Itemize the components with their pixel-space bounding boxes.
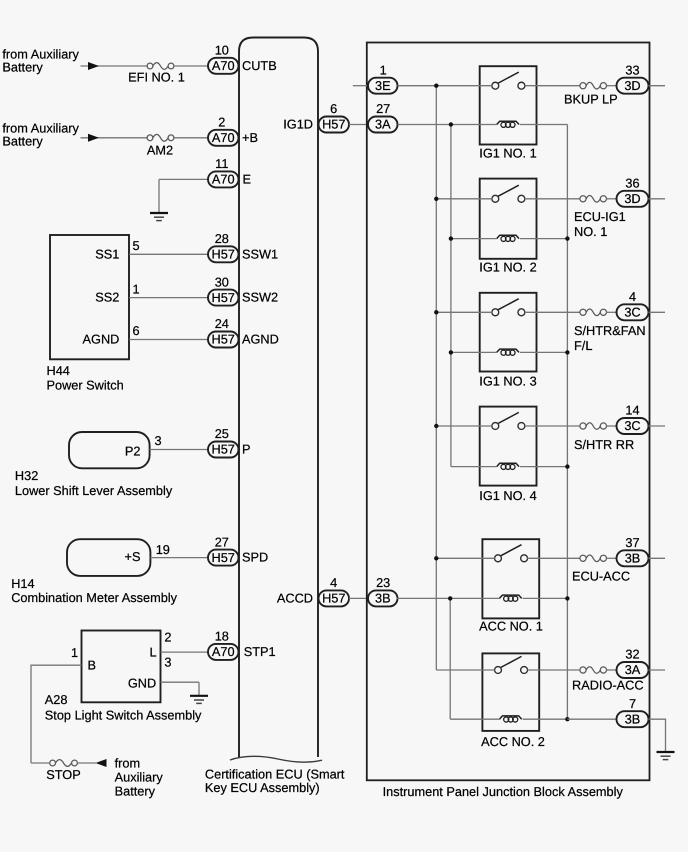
- connector 3A pin 32: [617, 662, 649, 678]
- wire +S to H57 pin27: [150, 557, 208, 559]
- ground (pin E): [150, 179, 168, 220]
- svg-text:L: L: [150, 644, 157, 659]
- svg-text:Battery: Battery: [2, 134, 43, 149]
- relay ACC NO. 1 switch: [495, 545, 528, 562]
- wire coil right IG1 NO. 1: [520, 124, 568, 126]
- svg-text:1: 1: [133, 281, 140, 296]
- wire ground to A70 pin11: [159, 178, 208, 180]
- svg-text:H57: H57: [212, 247, 235, 262]
- relay IG1 NO. 3 box: [480, 293, 537, 372]
- junction dot: [449, 122, 453, 126]
- wire fuse to oval: [607, 85, 617, 87]
- wire coil left ACC NO. 2: [450, 718, 499, 720]
- wire coil left IG1 NO. 4: [451, 466, 497, 468]
- relay IG1 NO. 2 switch: [492, 185, 525, 202]
- connector 3C pin 14: [617, 418, 649, 434]
- svg-text:A28: A28: [45, 692, 68, 707]
- svg-text:4: 4: [330, 575, 337, 590]
- fuse EFI NO. 1: [147, 63, 174, 70]
- svg-text:BKUP LP: BKUP LP: [564, 91, 618, 106]
- connector 3D pin 36: [617, 191, 649, 207]
- wire fuse to A70 pin10: [174, 65, 208, 67]
- fuse ECU-ACC: [580, 555, 607, 562]
- svg-text:24: 24: [215, 316, 229, 331]
- wire fuse to oval: [607, 425, 617, 427]
- wire 3B pin7 to ground: [649, 719, 666, 751]
- wire switch input ACC NO. 2: [436, 669, 494, 671]
- connector H57 pin 28: [208, 246, 239, 262]
- node from Auxiliary Battery (second): [2, 121, 79, 149]
- svg-text:H57: H57: [212, 332, 235, 347]
- svg-text:IG1 NO. 2: IG1 NO. 2: [479, 259, 536, 274]
- wire out of block: [649, 669, 666, 671]
- svg-text:23: 23: [376, 575, 390, 590]
- relay ACC NO. 2 switch: [495, 656, 528, 673]
- fuse BKUP LP: [580, 82, 607, 89]
- svg-text:H57: H57: [212, 550, 235, 565]
- wire switch input IG1 NO. 2: [436, 198, 492, 200]
- relay ACC NO. 2 box: [482, 653, 539, 731]
- svg-text:1: 1: [380, 62, 387, 77]
- svg-text:SSW2: SSW2: [242, 290, 278, 305]
- svg-text:3E: 3E: [375, 78, 391, 93]
- svg-text:IG1D: IG1D: [283, 117, 313, 132]
- relay ACC NO. 2 coil: [499, 716, 521, 722]
- svg-text:P: P: [242, 442, 251, 457]
- node from Auxiliary Battery (bottom): [115, 755, 164, 798]
- svg-text:2: 2: [164, 630, 171, 645]
- svg-text:from: from: [115, 755, 141, 770]
- svg-text:S/HTR RR: S/HTR RR: [574, 437, 634, 452]
- wire out of block: [649, 198, 666, 200]
- wire coil right ACC NO. 2: [523, 718, 568, 720]
- connector 3B pin 23: [368, 590, 398, 606]
- svg-text:A70: A70: [212, 130, 235, 145]
- svg-text:27: 27: [376, 101, 390, 116]
- relay IG1 NO. 4 box: [480, 407, 537, 486]
- wire switch output IG1 NO. 1: [525, 85, 580, 87]
- connector H57 pin 24: [208, 332, 239, 348]
- connector 3B pin 7: [617, 711, 649, 727]
- svg-text:4: 4: [629, 289, 636, 304]
- wire fuse to A70 pin2: [174, 137, 208, 139]
- svg-text:Stop Light Switch Assembly: Stop Light Switch Assembly: [45, 707, 202, 722]
- wire switch output ACC NO. 2: [527, 669, 580, 671]
- fuse S/HTR&FAN: [580, 309, 607, 316]
- connector H57 pin 27: [208, 550, 239, 566]
- wire coil left IG1 NO. 2: [451, 238, 497, 240]
- svg-text:A70: A70: [212, 172, 235, 187]
- svg-text:3B: 3B: [625, 551, 641, 566]
- wire out of block: [649, 85, 666, 87]
- svg-text:1: 1: [71, 645, 78, 660]
- node from Auxiliary Battery (top): [2, 47, 79, 75]
- wire L to A70 pin18: [161, 651, 209, 653]
- connector 3C pin 4: [617, 304, 649, 320]
- connector 3D pin 33: [617, 78, 649, 94]
- wire out of block: [649, 311, 666, 313]
- svg-text:25: 25: [215, 426, 229, 441]
- svg-text:3A: 3A: [625, 662, 641, 677]
- svg-text:SPD: SPD: [242, 550, 268, 565]
- svg-text:H44: H44: [47, 363, 70, 378]
- svg-text:3C: 3C: [624, 418, 640, 433]
- junction dot: [434, 556, 438, 560]
- svg-text:32: 32: [625, 647, 639, 662]
- junction dot: [434, 84, 438, 88]
- wire coil return to 3B pin7: [567, 718, 616, 720]
- wire stub into 3E: [353, 85, 368, 87]
- component H44 Power Switch box: [50, 235, 129, 359]
- svg-text:10: 10: [215, 43, 229, 58]
- wire switch input IG1 NO. 4: [436, 425, 492, 427]
- relay ACC NO. 1 coil: [499, 595, 521, 601]
- svg-text:RADIO-ACC: RADIO-ACC: [572, 678, 644, 693]
- svg-text:E: E: [243, 171, 252, 186]
- svg-text:Battery: Battery: [2, 60, 43, 75]
- svg-text:H57: H57: [212, 290, 235, 305]
- junction dot: [565, 236, 569, 240]
- wire coil right IG1 NO. 2: [520, 238, 568, 240]
- junction dot: [434, 424, 438, 428]
- svg-text:Instrument Panel Junction Bloc: Instrument Panel Junction Block Assembly: [383, 784, 624, 799]
- wire battery to fuse EFI: [81, 65, 148, 67]
- svg-text:SS2: SS2: [95, 290, 119, 305]
- wire GND to ground: [161, 681, 200, 683]
- svg-text:NO. 1: NO. 1: [574, 224, 607, 239]
- wire B to STOP fuse: [31, 665, 82, 763]
- connector A70 pin 18: [208, 644, 239, 660]
- wire H57-6 to 3A: [349, 124, 368, 126]
- svg-text:AM2: AM2: [147, 143, 173, 158]
- junction dot: [449, 350, 453, 354]
- svg-text:H57: H57: [322, 591, 345, 606]
- svg-text:3: 3: [164, 655, 171, 670]
- svg-text:36: 36: [625, 176, 639, 191]
- svg-text:H32: H32: [15, 468, 38, 483]
- connector A70 pin 10: [208, 58, 239, 74]
- svg-text:18: 18: [215, 629, 229, 644]
- svg-text:S/HTR&FAN: S/HTR&FAN: [574, 323, 646, 338]
- svg-text:5: 5: [133, 238, 140, 253]
- wire fuse to oval: [607, 557, 617, 559]
- svg-text:3A: 3A: [375, 117, 391, 132]
- label Certification ECU: [205, 766, 345, 794]
- junction dot: [448, 596, 452, 600]
- wire switch bus: [435, 86, 437, 670]
- svg-text:GND: GND: [128, 676, 156, 691]
- svg-text:F/L: F/L: [574, 338, 592, 353]
- wire P2 to H57 pin25: [150, 449, 208, 451]
- wire out of block: [649, 425, 666, 427]
- wire fuse to oval: [607, 669, 617, 671]
- svg-text:2: 2: [218, 115, 225, 130]
- connector H57 pin 6: [319, 117, 350, 133]
- svg-text:6: 6: [330, 101, 337, 116]
- svg-text:33: 33: [625, 62, 639, 77]
- wire switch output IG1 NO. 3: [525, 311, 580, 313]
- svg-text:ACC NO. 1: ACC NO. 1: [479, 618, 543, 633]
- label S/HTR&FAN: [574, 323, 646, 353]
- svg-text:+B: +B: [242, 130, 258, 145]
- svg-text:30: 30: [215, 274, 229, 289]
- op ECU Certification ECU outline: [239, 38, 318, 758]
- component A28 Stop Light Switch Assembly box: [82, 631, 161, 703]
- svg-text:3B: 3B: [375, 591, 391, 606]
- svg-text:H57: H57: [322, 117, 345, 132]
- relay IG1 NO. 2 box: [480, 179, 537, 259]
- fuse ECU-IG1: [580, 196, 607, 203]
- wire switch output IG1 NO. 4: [525, 425, 580, 427]
- svg-text:SS1: SS1: [95, 246, 119, 261]
- svg-text:SSW1: SSW1: [242, 246, 278, 261]
- svg-text:A70: A70: [212, 58, 235, 73]
- junction dot: [565, 596, 569, 600]
- wire SS2 to H57 pin30: [129, 297, 208, 299]
- wire battery to fuse AM2: [81, 137, 148, 139]
- svg-text:STOP: STOP: [46, 767, 80, 782]
- arrow feed +B: [88, 134, 99, 142]
- wire switch output IG1 NO. 2: [525, 198, 580, 200]
- svg-text:ECU-ACC: ECU-ACC: [572, 569, 630, 584]
- fuse STOP: [50, 760, 78, 767]
- svg-text:CUTB: CUTB: [242, 58, 277, 73]
- arrow feed STOP: [96, 759, 107, 767]
- svg-text:STP1: STP1: [244, 644, 276, 659]
- wire coil left ACC NO. 1: [396, 597, 499, 599]
- svg-text:IG1 NO. 4: IG1 NO. 4: [479, 488, 536, 503]
- junction dot: [565, 464, 569, 468]
- svg-text:Battery: Battery: [115, 783, 156, 798]
- junction dot: [449, 236, 453, 240]
- fuse AM2: [147, 134, 174, 141]
- relay IG1 NO. 2 coil: [497, 235, 519, 241]
- svg-text:H57: H57: [212, 442, 235, 457]
- svg-text:B: B: [88, 657, 97, 672]
- svg-text:ECU-IG1: ECU-IG1: [574, 209, 626, 224]
- connector H57 pin 30: [208, 290, 239, 306]
- connector 3A pin 27: [368, 117, 398, 133]
- wire to fuse STOP: [31, 762, 49, 764]
- relay IG1 NO. 4 coil: [497, 463, 519, 469]
- svg-text:Lower Shift Lever Assembly: Lower Shift Lever Assembly: [15, 483, 173, 498]
- connector A70 pin 11: [208, 171, 239, 187]
- wire ECU wavy bottom: [230, 756, 322, 762]
- connector 3E pin 1: [368, 78, 398, 94]
- svg-text:6: 6: [133, 323, 140, 338]
- arrow feed CUTB: [88, 62, 99, 70]
- svg-text:P2: P2: [125, 443, 141, 458]
- connector A70 pin 2: [208, 130, 239, 146]
- svg-text:ACC NO. 2: ACC NO. 2: [481, 734, 545, 749]
- relay IG1 NO. 3 switch: [492, 299, 525, 316]
- wire coil right ACC NO. 1: [523, 597, 568, 599]
- fuse S/HTR RR: [580, 423, 607, 430]
- connector 3B pin 37: [617, 550, 649, 566]
- svg-text:IG1 NO. 3: IG1 NO. 3: [479, 373, 536, 388]
- component Instrument Panel Junction Block box: [367, 43, 650, 781]
- svg-text:ACCD: ACCD: [277, 590, 313, 605]
- svg-text:Auxiliary: Auxiliary: [115, 769, 164, 784]
- relay IG1 NO. 4 switch: [492, 412, 525, 429]
- relay IG1 NO. 3 coil: [497, 349, 519, 355]
- wire coil return bus: [566, 125, 568, 720]
- svg-text:AGND: AGND: [242, 332, 279, 347]
- wire H57-4 to 3B: [349, 597, 368, 599]
- svg-text:IG1 NO. 1: IG1 NO. 1: [479, 146, 536, 161]
- svg-text:Power Switch: Power Switch: [47, 378, 124, 393]
- junction dot: [565, 350, 569, 354]
- svg-text:Combination Meter Assembly: Combination Meter Assembly: [11, 590, 177, 605]
- fuse RADIO-ACC: [580, 667, 607, 674]
- svg-text:EFI NO. 1: EFI NO. 1: [128, 70, 185, 85]
- svg-text:H14: H14: [11, 576, 34, 591]
- relay ACC NO. 1 box: [482, 539, 539, 618]
- svg-text:11: 11: [215, 156, 228, 171]
- wire out of block: [649, 557, 666, 559]
- wire ACC coil bus: [449, 598, 451, 719]
- junction dot: [434, 310, 438, 314]
- wire coil right IG1 NO. 3: [520, 351, 568, 353]
- component H14 Combination Meter Assembly box: [67, 539, 150, 576]
- ground (A28 GND): [190, 682, 208, 703]
- connector H57 pin 4: [319, 590, 350, 606]
- ground (junction block): [657, 751, 675, 760]
- svg-text:3D: 3D: [624, 78, 640, 93]
- svg-text:3C: 3C: [624, 305, 640, 320]
- junction dot: [565, 717, 569, 721]
- svg-text:37: 37: [625, 535, 639, 550]
- relay IG1 NO. 1 box: [480, 66, 537, 144]
- svg-text:7: 7: [629, 696, 636, 711]
- svg-text:3: 3: [155, 433, 162, 448]
- svg-text:3D: 3D: [624, 191, 640, 206]
- wire switch input IG1 NO. 3: [436, 311, 492, 313]
- svg-text:+S: +S: [125, 549, 141, 564]
- wire fuse to oval: [607, 311, 617, 313]
- label ECU-IG1: [574, 209, 626, 239]
- svg-text:19: 19: [156, 542, 170, 557]
- relay IG1 NO. 1 switch: [492, 72, 525, 89]
- svg-text:AGND: AGND: [83, 332, 120, 347]
- wire AGND to H57 pin24: [129, 339, 208, 341]
- svg-text:A70: A70: [212, 644, 235, 659]
- connector H57 pin 25: [208, 442, 239, 458]
- wire SS1 to H57 pin28: [129, 253, 208, 255]
- wire fuse to oval: [607, 198, 617, 200]
- svg-text:Key ECU Assembly): Key ECU Assembly): [205, 780, 320, 795]
- wire switch input IG1 NO. 1: [398, 85, 493, 87]
- svg-text:14: 14: [625, 403, 639, 418]
- wire switch input ACC NO. 1: [436, 557, 494, 559]
- relay IG1 NO. 1 coil: [497, 121, 519, 127]
- wire fuse to arrow: [77, 762, 96, 764]
- component H32 Lower Shift Lever Assembly box: [69, 432, 150, 468]
- wire coil right IG1 NO. 4: [520, 466, 568, 468]
- wire IG1 coil bus: [450, 125, 452, 467]
- wire coil left IG1 NO. 1: [398, 124, 497, 126]
- svg-text:27: 27: [215, 534, 229, 549]
- junction dot: [434, 197, 438, 201]
- svg-text:28: 28: [215, 231, 229, 246]
- wire switch output ACC NO. 1: [527, 557, 580, 559]
- wire coil left IG1 NO. 3: [451, 351, 497, 353]
- svg-text:3B: 3B: [625, 711, 641, 726]
